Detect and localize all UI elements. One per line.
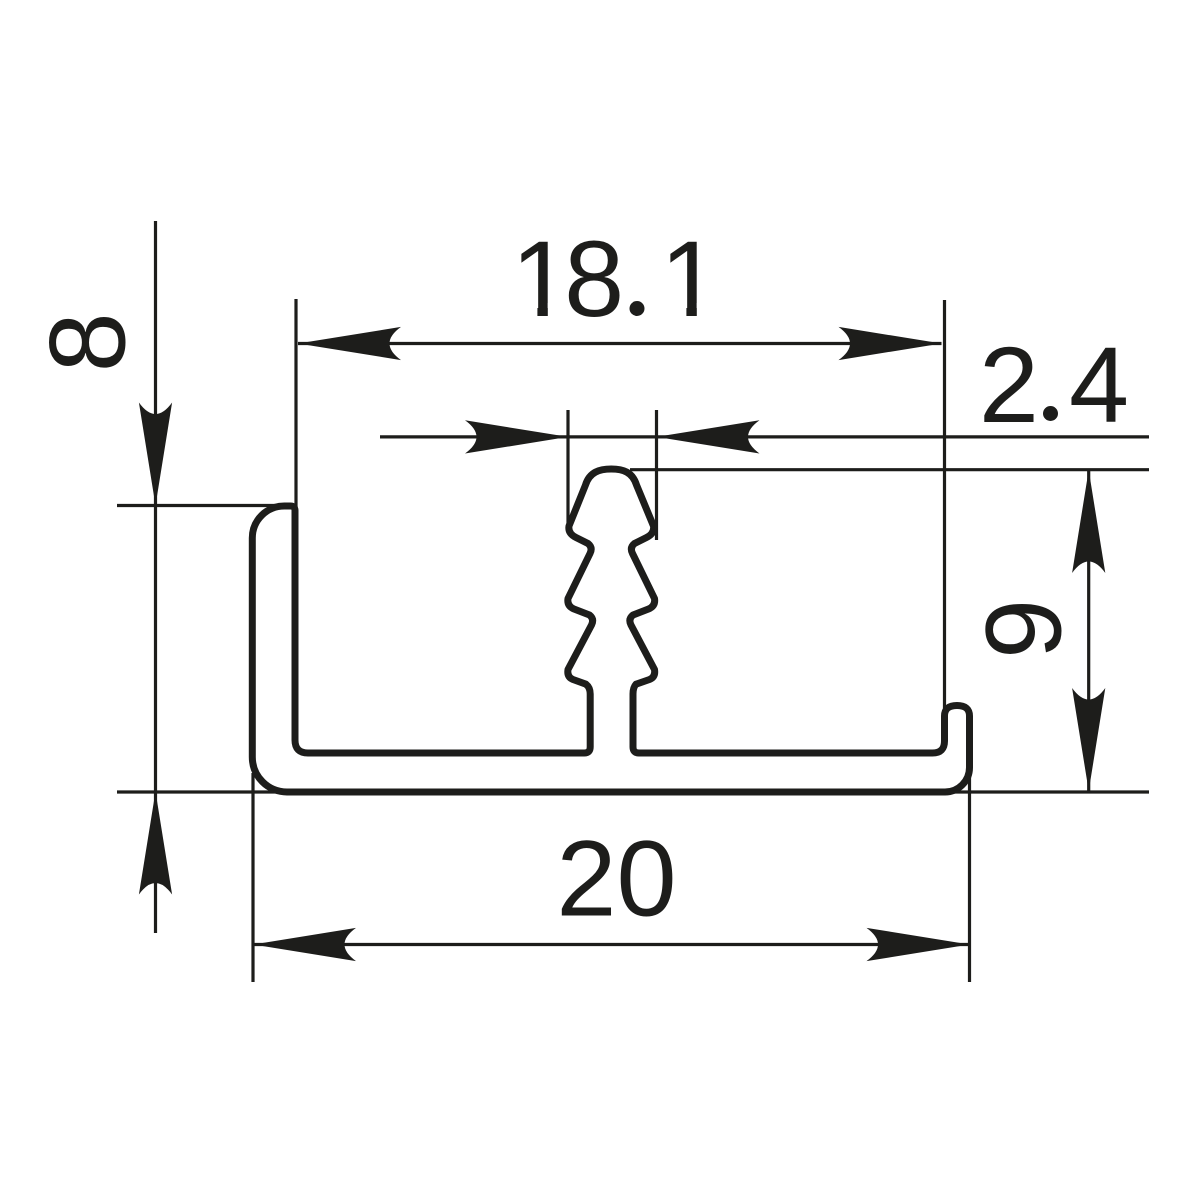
bottom extension line (profile underside level, shared by dimensions 8 and 9) xyxy=(117,790,1149,793)
dimension 20: left arrowhead xyxy=(253,928,356,961)
dimension 2.4: value label "2.4" xyxy=(979,324,1129,445)
svg-text:18: 18 xyxy=(511,218,620,339)
dimension 8: top extension line (lip top level) xyxy=(117,504,294,507)
dimension 2.4: left arrowhead (points right at left edge) xyxy=(465,420,568,453)
dimension 18.1: value label "18.1" xyxy=(511,218,720,339)
dimension 20: right extension line (right outer face) xyxy=(968,768,971,982)
svg-text:20: 20 xyxy=(556,818,676,939)
dimension 2.4: right extension line (fir-tree head right edge) xyxy=(655,410,658,540)
dimension 18.1: right extension line (inner face of right lip) xyxy=(943,300,946,712)
dimension 8: down arrowhead at lip top level xyxy=(139,403,172,506)
svg-text:1: 1 xyxy=(660,218,720,339)
dimension 18.1: left arrowhead xyxy=(298,327,401,360)
svg-text:8: 8 xyxy=(27,312,148,372)
dimension 8: vertical dimension line xyxy=(154,221,157,933)
dimension 9: down arrowhead at underside level xyxy=(1072,688,1105,791)
dimension 20: right arrowhead xyxy=(867,928,970,961)
svg-text:9: 9 xyxy=(963,599,1084,659)
dimension 2.4: left extension line (fir-tree head left edge) xyxy=(566,410,569,530)
dimension 8: up arrowhead at underside level xyxy=(139,792,172,895)
dimension 9: top extension line (fir-tree top level) xyxy=(630,468,1149,471)
dimension 9: vertical dimension line xyxy=(1087,470,1090,791)
dimension 20: dimension line xyxy=(253,943,970,946)
dimension 2.4: right arrowhead (points left at right edge) xyxy=(657,420,760,453)
profile outline: aluminium U-channel cross-section with central fir-tree rib, left tall lip and right hook lip xyxy=(252,469,969,792)
dimension 9: up arrowhead at fir-tree top level xyxy=(1072,470,1105,573)
dimension 20: left extension line (left outer face) xyxy=(251,773,254,982)
dimension 18.1: dimension line xyxy=(298,342,942,345)
svg-text:2.4: 2.4 xyxy=(979,324,1129,445)
dimension 18.1: left extension line (inner face of left lip) xyxy=(294,299,297,507)
dimension 18.1: right arrowhead xyxy=(839,327,942,360)
dimension 2.4: dimension line xyxy=(380,435,1149,438)
